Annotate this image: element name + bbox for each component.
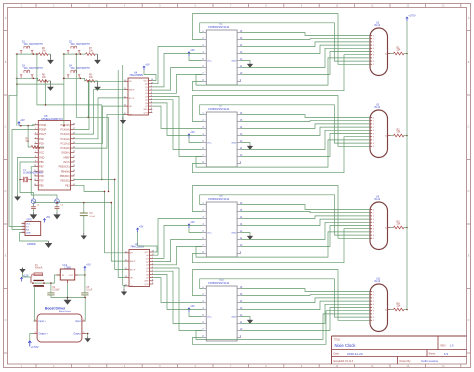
wire driver 1 output 3 (241, 45, 370, 53)
svg-text:GND: GND (231, 142, 236, 144)
svg-text:400mA: 400mA (35, 266, 43, 269)
ground for U7 (241, 143, 253, 150)
wire AVCC line (34, 202, 112, 204)
wire driver 2 output 2 (241, 124, 370, 129)
svg-text:GND: GND (231, 316, 236, 318)
wire MCU to SR1 pin 3 (74, 98, 124, 139)
svg-text:+12V: +12V (23, 275, 29, 278)
resistor R4 anode 20k (391, 302, 408, 311)
svg-text:TAC_SWITCHPTH: TAC_SWITCHPTH (70, 43, 90, 46)
svg-text:6: 6 (373, 311, 374, 313)
wire driver 3 output 0 (241, 205, 370, 210)
svg-text:PB3(MO): PB3(MO) (60, 175, 70, 178)
svg-text:STCP: STCP (130, 269, 136, 271)
svg-text:8: 8 (373, 235, 374, 237)
wire under loop B driver 2 (192, 137, 370, 173)
svg-text:6: 6 (373, 229, 374, 231)
svg-text:VCC: VCC (143, 80, 148, 82)
svg-text:2016-11-23: 2016-11-23 (347, 352, 363, 356)
svg-text:GPS: GPS (27, 218, 32, 221)
svg-text:5: 5 (373, 225, 374, 227)
svg-text:PB7: PB7 (39, 166, 44, 169)
svg-text:7: 7 (373, 58, 374, 60)
svg-text:D: D (468, 190, 470, 193)
svg-text:3: 3 (373, 301, 374, 303)
fuse F1 400mA (32, 265, 43, 277)
svg-text:1: 1 (373, 295, 374, 297)
svg-text:IN-14: IN-14 (374, 280, 381, 283)
svg-text:PB1: PB1 (65, 184, 70, 187)
wire loop outer driver 3 (192, 186, 370, 239)
wire bus to SR2 pin 1 (74, 185, 125, 253)
power flag +12V (20, 275, 29, 282)
svg-text:IN-14: IN-14 (374, 198, 381, 201)
wire bus to SR2 pin 2 (111, 203, 125, 262)
svg-text:1: 1 (373, 39, 374, 41)
power flag +170V top rail (406, 14, 416, 309)
svg-text:Boost Driver: Boost Driver (59, 310, 71, 313)
svg-text:GND: GND (39, 156, 45, 159)
svg-text:Output +: Output + (39, 333, 49, 336)
svg-text:PB5(SCK): PB5(SCK) (59, 166, 70, 169)
svg-text:7: 7 (373, 140, 374, 142)
svg-text:4: 4 (373, 304, 374, 306)
svg-text:Drawn By:: Drawn By: (400, 360, 412, 363)
wire driver 4 output 5 (241, 308, 370, 331)
wire MCU to SR1 pin 4 (74, 106, 124, 143)
wire loop inner driver 3 (200, 195, 370, 235)
resistor R1 anode 20k (391, 46, 408, 55)
microcontroller U5 ATMEGA328P-PU (34, 114, 76, 190)
svg-text:+170V: +170V (31, 345, 39, 349)
svg-text:Sheet:: Sheet: (429, 353, 437, 356)
svg-text:74HC595N: 74HC595N (130, 245, 144, 249)
svg-text:VCC: VCC (207, 316, 212, 318)
svg-text:74HC595N: 74HC595N (129, 73, 143, 77)
svg-text:0: 0 (373, 291, 374, 293)
wire signal to MCU column B (108, 117, 110, 192)
svg-text:AREF: AREF (63, 156, 70, 159)
svg-text:16.000MHZ-HC49S: 16.000MHZ-HC49S (23, 173, 43, 175)
svg-text:2: 2 (373, 42, 374, 44)
svg-text:GND: GND (231, 232, 236, 234)
wire bus SR2 to driver U10 (153, 268, 202, 331)
nixie driver U1 K155ID1SN74141 (202, 22, 243, 85)
svg-text:2: 2 (373, 216, 374, 218)
wire driver 2 output 4 (241, 130, 370, 149)
wire bus SR1 to driver U1 (152, 47, 202, 94)
svg-text:6: 6 (373, 55, 374, 57)
wire +5V rail to MCU (19, 125, 35, 127)
capacitor C3 (80, 203, 96, 240)
svg-text:PB2(SS): PB2(SS) (60, 180, 70, 183)
power flag +5V for U10 (188, 305, 203, 316)
svg-text:VCC: VCC (39, 152, 44, 155)
svg-text:9: 9 (373, 320, 374, 322)
wire under loop A driver 2 (196, 140, 370, 167)
wire driver 4 output 3 (241, 301, 370, 309)
svg-text:K155ID1SN74141: K155ID1SN74141 (208, 281, 230, 285)
svg-text:TAC_SWITCHPTH: TAC_SWITCHPTH (70, 67, 90, 70)
svg-text:TAC_SWITCHPTH: TAC_SWITCHPTH (23, 67, 43, 70)
svg-text:2: 2 (35, 332, 36, 334)
wire under loop A driver 3 (196, 232, 370, 257)
svg-text:9: 9 (373, 146, 374, 148)
shift register U6 74HC595N (124, 243, 155, 288)
svg-text:9: 9 (373, 64, 374, 66)
wire crystal to C1 (20, 180, 34, 199)
wire bus SR1 to driver U7 (152, 97, 202, 157)
svg-text:0: 0 (373, 117, 374, 119)
svg-text:+5V: +5V (190, 221, 195, 224)
svg-text:Boost Driver: Boost Driver (45, 306, 66, 310)
wire driver 4 output 0 (241, 289, 370, 292)
wire MCU RST to R5 rail (32, 124, 35, 126)
svg-text:6: 6 (373, 137, 374, 139)
svg-text:3: 3 (373, 45, 374, 47)
svg-text:4: 4 (83, 332, 84, 334)
svg-text:8: 8 (373, 61, 374, 63)
svg-text:K155ID1SN74141: K155ID1SN74141 (208, 197, 230, 201)
wire under loop B driver 3 (192, 229, 370, 263)
resistor R2 anode 20k (391, 128, 408, 137)
tact switch S2 with resistor R7 and ground (63, 40, 101, 64)
wire MCU to SR1 pin 5 (74, 114, 124, 148)
svg-text:5: 5 (373, 133, 374, 135)
wire MCU to SR1 pin 1 (74, 81, 124, 129)
wire S1 left contact to +5V rail (16, 54, 18, 126)
power flag +5V for U7 (188, 131, 203, 142)
svg-text:+5V: +5V (190, 49, 195, 52)
DC jack J1 (31, 277, 44, 287)
wire MCU XTAL2 to crystal (31, 167, 34, 180)
svg-text:1: 1 (22, 222, 23, 224)
svg-text:2: 2 (373, 298, 374, 300)
wire driver 3 output 5 (241, 226, 370, 247)
svg-text:PC3(A3): PC3(A3) (61, 133, 70, 136)
svg-text:C: C (468, 126, 470, 129)
ground jack sleeve (19, 268, 31, 278)
wire driver 3 output 2 (241, 216, 370, 219)
wire under loop A driver 4 (196, 314, 370, 340)
wire bus to SR2 pin 4 (118, 70, 125, 277)
svg-text:VCC: VCC (207, 60, 212, 62)
svg-text:3: 3 (22, 228, 23, 230)
svg-text:PC5(A5): PC5(A5) (61, 124, 70, 127)
svg-text:9: 9 (373, 238, 374, 240)
svg-text:+5V: +5V (139, 225, 144, 228)
wire S2/S4 left contacts to +5V rail (63, 54, 65, 126)
wire MCU XTAL1 to crystal (20, 162, 35, 180)
wire regulator output (78, 271, 85, 276)
svg-text:PD2: PD2 (39, 138, 44, 141)
svg-text:0.1uF: 0.1uF (90, 216, 96, 218)
resistor R3 anode 20k (391, 220, 408, 229)
svg-text:Q7S: Q7S (144, 112, 149, 114)
ground for U10 (241, 317, 253, 324)
svg-text:3: 3 (373, 127, 374, 129)
svg-text:+5V: +5V (86, 264, 91, 267)
svg-text:+5V: +5V (190, 131, 195, 134)
boost converter module U13 (34, 306, 86, 342)
wire crystal to C2 (31, 180, 57, 199)
svg-text:GND: GND (231, 60, 236, 62)
svg-text:K155ID1SN74141: K155ID1SN74141 (208, 107, 230, 111)
power flag +5V main (84, 264, 91, 271)
nixie tube U9 IN-14 (370, 196, 391, 250)
svg-text:7: 7 (373, 232, 374, 234)
crystal Y1 16MHz (19, 170, 43, 182)
wire driver 2 output 5 (241, 134, 370, 157)
crystal Y1 cap C2 (53, 199, 64, 220)
wire bus to SR2 pin 3 (74, 179, 125, 269)
ground for U6 (121, 286, 127, 296)
svg-text:8: 8 (373, 317, 374, 319)
svg-text:K155ID1SN74141: K155ID1SN74141 (208, 25, 230, 29)
svg-text:+5V: +5V (145, 63, 150, 66)
ground regulator rail (64, 298, 72, 305)
svg-text:IN-14: IN-14 (374, 24, 381, 27)
svg-text:GPRMc: GPRMc (27, 242, 37, 246)
svg-text:PB4(MI): PB4(MI) (61, 170, 70, 173)
svg-text:1: 1 (373, 121, 374, 123)
ground GPS area arrow (0, 0, 1, 1)
svg-text:EasyEDA V3.11.3: EasyEDA V3.11.3 (334, 360, 354, 363)
svg-text:Input: Input (75, 320, 81, 323)
wire under loop A driver 1 (196, 58, 370, 85)
resistor R5 reset pullup (25, 126, 43, 149)
svg-text:PC2(A2): PC2(A2) (61, 138, 70, 141)
svg-text:GND: GND (143, 109, 148, 111)
svg-text:3: 3 (83, 319, 84, 321)
power flag +5V for GPS (43, 216, 50, 223)
svg-text:TITLE:: TITLE: (334, 339, 341, 341)
svg-text:Colin Luoma: Colin Luoma (421, 359, 438, 363)
capacitor C4 0.33uF (47, 283, 60, 297)
svg-text:Nixie Clock: Nixie Clock (335, 343, 357, 348)
svg-text:4: 4 (373, 222, 374, 224)
svg-text:GND: GND (144, 281, 149, 283)
svg-text:Input +: Input + (39, 320, 47, 323)
nixie driver U8 K155ID1SN74141 (202, 194, 243, 257)
wire S2 signal down (76, 53, 109, 117)
svg-text:Output: Output (73, 333, 81, 336)
wire driver 3 output 4 (241, 222, 370, 239)
svg-text:PD6: PD6 (39, 175, 44, 178)
wire driver 2 output 0 (241, 115, 370, 118)
svg-text:2: 2 (22, 225, 23, 227)
svg-text:L7805: L7805 (65, 268, 72, 270)
wire signal to MCU column A (101, 105, 103, 180)
svg-text:4: 4 (373, 48, 374, 50)
power flag +5V for U4 (143, 63, 156, 80)
wire under loop B driver 1 (192, 55, 370, 91)
svg-text:2: 2 (373, 124, 374, 126)
wire boost output ground (85, 333, 91, 343)
svg-text:STCP: STCP (129, 98, 135, 100)
svg-text:+5V: +5V (20, 119, 25, 122)
power flag +170V boost output (28, 334, 39, 350)
svg-text:PC6(R: PC6(R (39, 124, 46, 127)
wire loop inner driver 4 (200, 279, 370, 317)
svg-text:AVCC: AVCC (63, 161, 70, 164)
svg-text:MR: MR (130, 286, 134, 288)
svg-text:Date:: Date: (334, 353, 340, 356)
svg-text:GND: GND (26, 232, 31, 234)
wire driver 1 output 0 (241, 33, 370, 36)
wire jack to regulator (32, 275, 60, 284)
shift register U4 74HC595N (123, 72, 154, 117)
voltage regulator U12 L7805 (57, 264, 79, 283)
tact switch S4 with resistor R9 and ground (63, 65, 101, 91)
wire bus to SR2 pin 5 (123, 65, 126, 285)
svg-text:D: D (5, 190, 7, 193)
svg-text:1.0: 1.0 (450, 343, 454, 347)
wire loop outer driver 4 (192, 270, 370, 321)
svg-text:VCC: VCC (144, 252, 149, 254)
svg-text:ATMEGA328P-PU: ATMEGA328P-PU (41, 117, 63, 121)
svg-text:5: 5 (373, 51, 374, 53)
nixie tube U3 IN-14 (370, 104, 391, 158)
nixie driver U10 K155ID1SN74141 (202, 278, 243, 341)
wire driver 2 output 3 (241, 127, 370, 135)
tact switch S1 with resistor R6 and ground (16, 40, 54, 64)
svg-text:0.33uF: 0.33uF (52, 290, 60, 292)
wire under loop B driver 4 (192, 311, 370, 345)
svg-text:+5V: +5V (46, 216, 51, 219)
svg-text:REV: REV (441, 343, 447, 347)
nixie tube U11 IN-14 (370, 278, 391, 332)
wire driver 2 output 1 (241, 120, 370, 123)
crystal Y1 cap C1 (30, 199, 41, 220)
wire MCU RX to GPS (12, 130, 35, 230)
power flag +5V for U8 (188, 221, 203, 232)
power flag +5V for U6 (136, 225, 157, 252)
wire ground rail regulator (51, 283, 85, 298)
wire S3 to GPS long left rail (9, 84, 22, 226)
wire driver 1 output 1 (241, 38, 370, 41)
wire loop inner driver 1 (200, 23, 370, 61)
ground for U4 (120, 114, 126, 124)
svg-text:8: 8 (373, 143, 374, 145)
svg-text:SHCP: SHCP (129, 89, 135, 91)
svg-text:IN-14: IN-14 (374, 106, 381, 109)
wire +12V to boost input (34, 286, 35, 321)
svg-text:VCC: VCC (207, 142, 212, 144)
svg-text:0: 0 (373, 209, 374, 211)
svg-text:PC1(A1): PC1(A1) (61, 142, 70, 145)
svg-text:PB6: PB6 (39, 161, 44, 164)
wire boost input ground (84, 297, 86, 321)
wire driver 1 output 5 (241, 52, 370, 75)
tact switch S3 with resistor R8 and ground (16, 65, 54, 91)
wire driver 4 output 1 (241, 294, 370, 297)
power flag +5V near MCU (18, 119, 25, 126)
wire S4 signal down (88, 80, 90, 118)
ground for U8 (241, 233, 253, 240)
svg-text:GND(A): GND(A) (61, 152, 70, 155)
svg-text:VCC: VCC (207, 232, 212, 234)
svg-text:VCC: VCC (26, 223, 31, 225)
capacitor C5 0.1uF (81, 275, 93, 298)
wire S3 signal down (45, 80, 47, 106)
svg-text:3: 3 (373, 219, 374, 221)
svg-text:PB0: PB0 (39, 184, 44, 187)
wire MCU to SR1 pin 2 (74, 90, 124, 135)
svg-text:4: 4 (22, 231, 23, 233)
svg-text:Q7S: Q7S (145, 284, 150, 286)
svg-text:SHCP: SHCP (130, 261, 136, 263)
wire S1 signal down (36, 53, 102, 105)
svg-text:MR: MR (129, 114, 133, 116)
wire driver 4 output 4 (241, 304, 370, 323)
svg-text:1/1: 1/1 (444, 352, 449, 356)
wire loop inner driver 2 (200, 105, 370, 143)
svg-text:PD0(R: PD0(R (39, 128, 46, 131)
wire MCU ground pin (18, 157, 35, 195)
wire driver 3 output 1 (241, 212, 370, 213)
svg-text:0.1uF: 0.1uF (86, 290, 92, 292)
nixie tube U2 IN-14 (370, 22, 391, 76)
nixie driver U7 K155ID1SN74141 (202, 104, 243, 167)
wire driver 3 output 3 (241, 219, 370, 225)
svg-text:PD3: PD3 (39, 142, 44, 145)
title block (332, 336, 467, 364)
svg-text:1: 1 (373, 213, 374, 215)
wire loop outer driver 1 (192, 14, 370, 65)
GPS connector P1 (22, 218, 41, 246)
svg-text:+170V: +170V (408, 14, 416, 17)
svg-text:+5V: +5V (190, 305, 195, 308)
wire driver 1 output 2 (241, 42, 370, 47)
svg-text:0: 0 (373, 35, 374, 37)
ground for U1 (241, 61, 253, 68)
svg-text:4: 4 (373, 130, 374, 132)
ground MCU (14, 195, 21, 201)
svg-text:PD4: PD4 (39, 147, 44, 150)
power flag +5V for U1 (188, 49, 203, 60)
svg-text:7: 7 (373, 314, 374, 316)
svg-text:5: 5 (373, 307, 374, 309)
junction dots mid column (104, 179, 116, 204)
svg-text:C: C (5, 126, 7, 129)
wire S3 row tie (16, 78, 64, 85)
svg-text:PC4(A4): PC4(A4) (61, 128, 70, 131)
svg-text:PD1(T: PD1(T (39, 133, 46, 136)
wire loop outer driver 2 (192, 96, 370, 147)
svg-text:RX: RX (26, 229, 30, 231)
wire bus SR2 to driver U8 (153, 219, 202, 265)
wire GPS ground (20, 233, 53, 249)
svg-text:PD7: PD7 (39, 180, 44, 183)
wire driver 1 output 4 (241, 48, 370, 67)
svg-text:TAC_SWITCHPTH: TAC_SWITCHPTH (23, 43, 43, 46)
wire driver 4 output 2 (241, 298, 370, 303)
svg-text:PC0(A0): PC0(A0) (61, 147, 70, 150)
